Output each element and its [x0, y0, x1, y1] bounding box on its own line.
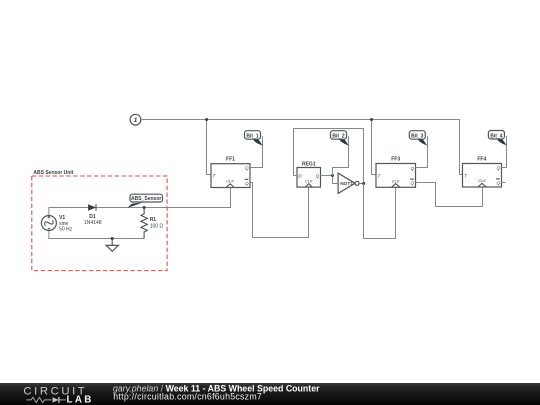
junction dot FF1 tap: [205, 118, 208, 121]
svg-text:CLK: CLK: [478, 178, 486, 183]
wire tap to FF1 T: [207, 120, 212, 175]
ground: [106, 239, 118, 252]
wire NOT1 output: [359, 183, 364, 185]
node 1 circle: [130, 114, 141, 125]
wire Bit_2 flag dogleg: [333, 136, 349, 175]
flag Bit_3: [409, 131, 427, 146]
svg-text:Bit_3: Bit_3: [411, 134, 423, 140]
svg-text:Q: Q: [245, 166, 249, 171]
voltage source V1: [41, 215, 72, 233]
wire FF4 Qbar stub: [502, 182, 506, 184]
svg-text:CLK: CLK: [305, 178, 313, 183]
svg-text:100 Ω: 100 Ω: [150, 224, 164, 230]
svg-text:FF1: FF1: [226, 157, 235, 163]
svg-text:Bit_1: Bit_1: [246, 134, 258, 140]
svg-text:Q: Q: [411, 166, 415, 171]
wire FF1 Q to Bit_1 flag: [250, 136, 263, 167]
wire ABS sensor bottom rail: [49, 231, 144, 239]
flag Bit_1: [245, 131, 263, 146]
junction dot NOT1 output: [362, 182, 365, 185]
svg-text:1N4148: 1N4148: [84, 220, 102, 226]
flip-flop FF3: [376, 156, 416, 187]
svg-text:R1: R1: [150, 217, 157, 223]
flip-flop FF4: [463, 156, 502, 187]
svg-text:REG1: REG1: [302, 161, 316, 167]
svg-text:Q: Q: [245, 181, 249, 186]
wire REG1 Q to NOT1 input: [321, 176, 339, 184]
wire top rail from node 1: [141, 119, 460, 121]
flag Bit_4: [488, 131, 506, 146]
wire ABS sensor top rail to FF1 CLK: [49, 188, 231, 216]
red annotation box ABS Sensor Unit: [32, 170, 167, 270]
flag Bit_2: [331, 131, 349, 146]
junction dot ground: [111, 237, 114, 240]
svg-text:NOT1: NOT1: [340, 181, 353, 187]
flag ABS_Sensor: [128, 194, 163, 207]
svg-text:http://circuitlab.com/cn6f6uh5: http://circuitlab.com/cn6f6uh5cszm7: [113, 391, 262, 401]
wire FF4 Q to Bit_4 flag: [502, 136, 507, 168]
svg-text:FF4: FF4: [477, 156, 486, 162]
gate NOT1: [338, 173, 359, 193]
svg-text:Bit_2: Bit_2: [332, 134, 344, 140]
junction dot REG1 Q: [331, 174, 334, 177]
junction dot R1 top: [143, 206, 146, 209]
svg-text:CLK: CLK: [226, 179, 234, 184]
svg-text:CLK: CLK: [392, 178, 400, 183]
svg-text:ABS Sensor Unit: ABS Sensor Unit: [33, 170, 73, 176]
wire drop to FF4 T: [460, 120, 463, 175]
diode D1: [84, 204, 102, 226]
svg-text:Q: Q: [497, 165, 501, 170]
logo resistor-diode glyph: [27, 397, 67, 403]
wire FF3 Q to Bit_3 flag: [416, 136, 428, 167]
wire FF1 Qbar to REG1 CLK: [250, 183, 309, 238]
svg-text:LAB: LAB: [67, 394, 92, 405]
wire tap to FF3 T: [372, 120, 377, 175]
svg-text:50 Hz: 50 Hz: [59, 227, 73, 233]
svg-text:ABS_Sensor: ABS_Sensor: [131, 196, 161, 202]
wire REG1 D feedback loop: [294, 129, 364, 184]
junction dot FF3 tap: [370, 118, 373, 121]
flip-flop FF1: [211, 157, 250, 188]
svg-text:Bit_4: Bit_4: [490, 133, 502, 139]
wire NOT1 to FF3 CLK: [364, 184, 396, 239]
svg-text:Q: Q: [411, 181, 415, 186]
flip-flop REG1: [297, 161, 321, 187]
svg-text:Q: Q: [497, 181, 501, 186]
wire FF3 Qbar to FF4 CLK: [416, 183, 483, 207]
resistor R1: [141, 208, 164, 239]
svg-text:Q: Q: [316, 174, 320, 179]
svg-text:FF3: FF3: [391, 156, 400, 162]
